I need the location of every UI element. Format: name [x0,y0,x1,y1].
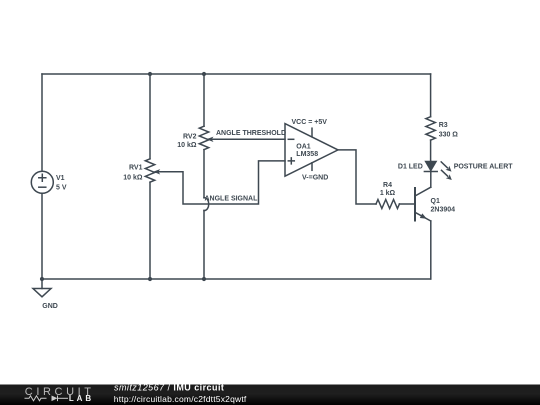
svg-text:2N3904: 2N3904 [431,206,456,213]
svg-text:1 kΩ: 1 kΩ [380,190,396,197]
svg-text:POSTURE ALERT: POSTURE ALERT [454,163,514,170]
svg-text:R3: R3 [439,122,448,129]
svg-text:LM358: LM358 [296,151,318,158]
svg-text:ANGLE THRESHOLD: ANGLE THRESHOLD [216,130,286,137]
svg-text:RV2: RV2 [183,134,197,141]
svg-text:5 V: 5 V [56,185,67,192]
svg-text:10 kΩ: 10 kΩ [177,142,197,149]
svg-text:OA1: OA1 [296,144,311,151]
svg-text:330 Ω: 330 Ω [439,132,459,139]
svg-text:http://circuitlab.com/c2fdtt5x: http://circuitlab.com/c2fdtt5x2qwtf [114,394,247,404]
svg-text:ANGLE SIGNAL: ANGLE SIGNAL [205,195,259,202]
svg-text:LAB: LAB [69,394,94,403]
svg-text:10 kΩ: 10 kΩ [123,175,143,182]
svg-text:GND: GND [42,303,58,310]
svg-text:V1: V1 [56,175,65,182]
svg-text:smitz12567 / IMU circuit: smitz12567 / IMU circuit [114,383,224,393]
svg-text:V-=GND: V-=GND [302,175,328,182]
svg-text:R4: R4 [383,182,392,189]
svg-text:Q1: Q1 [431,198,440,205]
svg-text:VCC = +5V: VCC = +5V [292,119,328,126]
svg-text:D1 LED: D1 LED [398,164,423,171]
svg-text:RV1: RV1 [129,165,143,172]
